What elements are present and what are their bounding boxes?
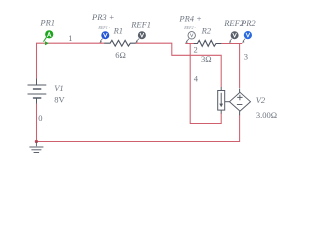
svg-text:REF1 -: REF1 - [97,25,110,30]
svg-text:6Ω: 6Ω [115,50,126,60]
svg-text:R1: R1 [113,26,123,36]
battery V1 [28,79,47,104]
svg-text:PR1: PR1 [39,18,55,28]
probe REF2 (voltage, gray) [229,31,239,43]
svg-text:R2: R2 [201,25,212,35]
svg-text:3: 3 [244,51,248,61]
wire: battery bottom to ground junction [36,103,38,142]
wire: bottom ground rail [37,115,240,142]
plus sign [237,95,242,101]
probe REF1 (voltage, gray) [135,31,146,43]
dependent source V2 diamond [230,89,251,116]
svg-text:REF1: REF1 [130,19,151,29]
probe PR2 (voltage, blue) [242,31,252,43]
current sense box [218,87,230,114]
resistor R1 [104,40,135,46]
sense arrow head [219,104,223,108]
svg-text:8V: 8V [54,95,65,105]
svg-text:REF2 -: REF2 - [183,25,196,30]
svg-text:3Ω: 3Ω [201,54,212,64]
svg-text:1: 1 [68,33,72,43]
probe PR1 (current) [44,30,54,45]
svg-text:V1: V1 [54,83,63,93]
svg-text:PR4 +: PR4 + [178,13,202,23]
svg-text:3.00Ω: 3.00Ω [256,110,277,120]
wire: node 3 vertical from R2 to diamond [221,44,242,89]
svg-text:PR3 +: PR3 + [91,12,115,22]
svg-text:V2: V2 [256,95,266,105]
wire: node 1 top rail from battery to R1 [37,43,105,79]
svg-text:PR2: PR2 [240,18,256,28]
svg-text:2: 2 [194,45,198,55]
minus sign [237,104,243,106]
wire: node 4 loop box bottom to R2 left [185,44,221,124]
svg-text:4: 4 [194,74,199,84]
wire: R1 right to step corner [136,43,222,87]
ground [29,142,43,153]
probe PR4 (voltage, white) [185,32,195,43]
resistor R2 [194,40,222,46]
junction dot at ground node [35,140,38,143]
svg-text:0: 0 [38,113,42,123]
probe PR3 (voltage, blue) [100,31,110,43]
